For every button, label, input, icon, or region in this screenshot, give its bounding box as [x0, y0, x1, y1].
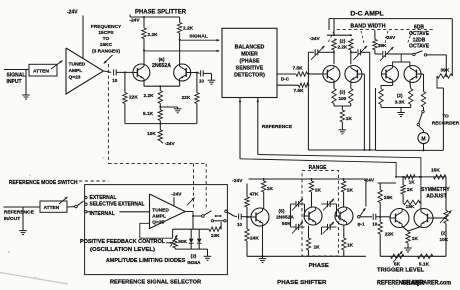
svg-text:7.5K: 7.5K: [294, 88, 305, 94]
svg-text:AMPLITUDE LIMITING DIODES: AMPLITUDE LIMITING DIODES: [106, 258, 186, 264]
svg-text:10: 10: [199, 79, 205, 84]
svg-text:(2): (2): [397, 93, 403, 98]
svg-text:(2): (2): [340, 90, 346, 95]
svg-text:Q=23: Q=23: [69, 75, 81, 81]
svg-text:SELECTIVE EXTERNAL: SELECTIVE EXTERNAL: [90, 202, 145, 208]
svg-text:6DB: 6DB: [414, 25, 424, 31]
svg-text:RANGE: RANGE: [309, 165, 327, 171]
svg-text:SYMMETRY: SYMMETRY: [421, 187, 450, 193]
svg-text:D-C: D-C: [281, 77, 290, 82]
svg-text:-24V: -24V: [364, 177, 375, 183]
svg-text:-24V: -24V: [385, 35, 396, 41]
svg-text:1K: 1K: [412, 236, 419, 242]
svg-text:BALANCED: BALANCED: [235, 44, 265, 50]
svg-text:15K: 15K: [406, 204, 415, 210]
svg-text:1K: 1K: [314, 245, 321, 251]
svg-text:(PHASE: (PHASE: [239, 58, 259, 64]
svg-text:2N652A: 2N652A: [276, 215, 294, 221]
svg-text:(5): (5): [279, 208, 285, 214]
svg-text:POSITIVE FEEDBACK CONTROL: POSITIVE FEEDBACK CONTROL: [80, 239, 166, 245]
svg-text:24K: 24K: [250, 236, 259, 242]
svg-text:REFERENCE MODE SWITCH: REFERENCE MODE SWITCH: [9, 180, 78, 186]
svg-text:SENSITIVE: SENSITIVE: [236, 65, 264, 71]
svg-text:39K: 39K: [378, 43, 387, 49]
svg-text:REFERENCE: REFERENCE: [4, 210, 35, 216]
svg-text:50K: 50K: [178, 239, 187, 245]
svg-text:φ-1: φ-1: [357, 221, 365, 226]
svg-text:1K: 1K: [315, 188, 322, 194]
svg-text:2.2K: 2.2K: [183, 26, 194, 32]
svg-text:1K: 1K: [346, 116, 353, 122]
svg-text:-24V: -24V: [232, 178, 243, 184]
svg-text:100: 100: [339, 96, 347, 101]
svg-text:TRIGGER LEVEL: TRIGGER LEVEL: [377, 268, 425, 274]
svg-text:ATTEN: ATTEN: [44, 205, 60, 211]
svg-text:AMPL: AMPL: [152, 213, 166, 219]
svg-text:1K: 1K: [267, 186, 274, 192]
svg-text:47K: 47K: [250, 191, 259, 197]
svg-text:SIGNAL: SIGNAL: [189, 33, 207, 39]
svg-text:INPUT: INPUT: [7, 79, 22, 85]
svg-text:-24V: -24V: [171, 192, 182, 198]
svg-text:AMPL: AMPL: [69, 68, 83, 74]
svg-text:REFERENCE SIGNAL SELECTOR: REFERENCE SIGNAL SELECTOR: [110, 280, 202, 286]
svg-text:Q=25: Q=25: [152, 219, 164, 225]
svg-text:PHASE SPLITTER: PHASE SPLITTER: [135, 9, 187, 15]
svg-text:RECORDER: RECORDER: [432, 121, 460, 127]
svg-text:ATTEN: ATTEN: [33, 69, 49, 75]
svg-text:TO: TO: [103, 36, 110, 42]
svg-text:PHASE SHIFTER: PHASE SHIFTER: [277, 280, 327, 286]
svg-text:(2): (2): [191, 254, 197, 259]
svg-text:EXTERNAL: EXTERNAL: [90, 195, 117, 201]
svg-text:22K: 22K: [129, 94, 138, 100]
svg-text:7.5K: 7.5K: [293, 66, 304, 72]
svg-text:2.2K: 2.2K: [148, 32, 159, 38]
svg-text:(2): (2): [340, 39, 346, 44]
svg-text:SIGNAL: SIGNAL: [7, 73, 26, 79]
svg-text:1K: 1K: [407, 187, 414, 193]
svg-text:3.3K: 3.3K: [395, 99, 405, 104]
svg-text:OCTAVE: OCTAVE: [409, 31, 430, 37]
svg-text:10: 10: [237, 222, 243, 227]
svg-text:M: M: [421, 136, 425, 142]
svg-text:1K: 1K: [347, 188, 354, 194]
svg-text:OCTAVE: OCTAVE: [409, 44, 430, 50]
svg-text:10K: 10K: [211, 233, 220, 239]
svg-text:5K: 5K: [394, 261, 401, 267]
svg-text:MIXER: MIXER: [241, 51, 258, 57]
svg-text:5.1K: 5.1K: [143, 111, 154, 117]
svg-text:(OSCILLATION LEVEL): (OSCILLATION LEVEL): [90, 247, 155, 253]
svg-text:-24V: -24V: [310, 36, 321, 42]
svg-text:REFERENCE: REFERENCE: [262, 124, 293, 130]
svg-text:10: 10: [112, 78, 118, 83]
svg-text:15CPS: 15CPS: [98, 30, 114, 36]
svg-text:10K: 10K: [147, 131, 156, 137]
svg-text:INTERNAL: INTERNAL: [90, 211, 115, 217]
svg-text:(3 RANGES): (3 RANGES): [92, 49, 120, 55]
svg-text:IN34A: IN34A: [187, 260, 201, 265]
svg-text:-24V: -24V: [165, 141, 176, 147]
svg-text:SHAKR: SHAKR: [402, 280, 425, 287]
svg-text:10: 10: [372, 221, 378, 226]
svg-text:TUNED: TUNED: [152, 207, 169, 213]
svg-text:2.2K: 2.2K: [144, 93, 155, 99]
svg-text:2N652A: 2N652A: [152, 63, 171, 69]
svg-text:1K: 1K: [347, 243, 354, 249]
svg-text:39K: 39K: [441, 67, 450, 73]
svg-text:22K: 22K: [385, 231, 394, 237]
svg-text:22K: 22K: [182, 95, 191, 101]
svg-text:TUNED: TUNED: [69, 62, 86, 68]
svg-text:D-C AMPL: D-C AMPL: [350, 12, 384, 18]
svg-text:15K: 15K: [431, 167, 440, 173]
svg-text:ADJUST: ADJUST: [426, 194, 447, 200]
svg-text:12DB: 12DB: [413, 37, 426, 43]
svg-text:15KC: 15KC: [100, 42, 113, 48]
svg-text:PHASE: PHASE: [309, 263, 330, 269]
svg-text:IN/OUT: IN/OUT: [4, 216, 21, 222]
svg-text:BAND WIDTH: BAND WIDTH: [350, 23, 385, 29]
svg-text:-24V: -24V: [67, 10, 78, 16]
svg-text:2.2K: 2.2K: [337, 45, 347, 50]
svg-text:DETECTOR): DETECTOR): [234, 72, 265, 78]
svg-text:10K: 10K: [440, 237, 449, 242]
svg-text:(2): (2): [441, 230, 447, 235]
svg-text:15K: 15K: [384, 195, 393, 201]
svg-text:1K: 1K: [409, 180, 416, 186]
svg-text:FREQUENCY: FREQUENCY: [91, 24, 122, 30]
svg-text:5.1K: 5.1K: [419, 261, 430, 267]
svg-text:-24V: -24V: [129, 18, 140, 24]
